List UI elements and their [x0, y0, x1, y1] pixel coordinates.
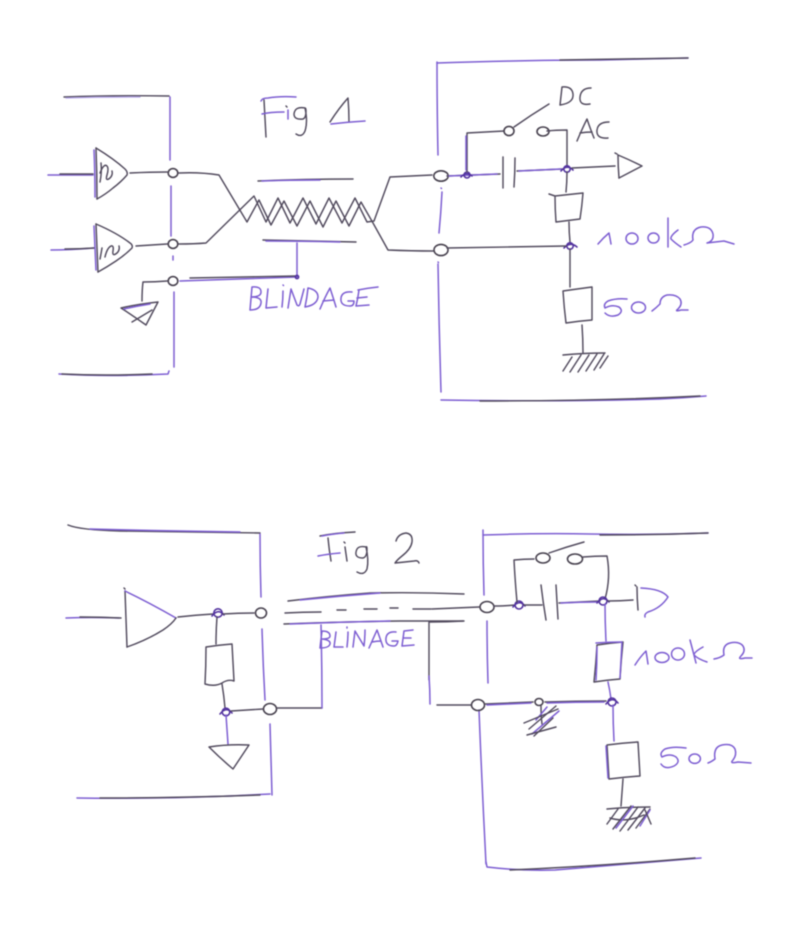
wire node D to capacitor — [447, 174, 500, 176]
resistor R1 (100k) — [549, 193, 583, 222]
right box (fig2 receiver) outline — [479, 530, 708, 870]
wire node I to junction J9 — [485, 702, 533, 704]
wire node C to ground — [142, 281, 167, 301]
100k ohm label (fig2) — [635, 640, 752, 665]
cable bottom shield end tick — [430, 621, 464, 622]
junction J1 — [464, 172, 470, 178]
switch S1 wire AC to junction J2 — [547, 130, 567, 167]
BLINAGE label — [320, 627, 414, 648]
resistor R3 (termination) — [205, 644, 234, 685]
wire J4 to node F — [223, 613, 254, 614]
node C (shield connection) — [168, 277, 178, 286]
resistor R2 (50 ohm) — [563, 287, 592, 323]
node D (signal input) — [434, 171, 448, 181]
left box (fig2 driver) outline — [68, 525, 272, 798]
ground (fig2 left, triangle) — [209, 745, 249, 769]
wire R1 to junction J3 — [569, 222, 570, 242]
wire shield to node C — [180, 243, 297, 281]
junction J8 — [608, 698, 616, 706]
wire R5 down to ground — [621, 779, 623, 806]
shielded cable bottom line — [284, 621, 463, 624]
wire node G to shield drop corner — [277, 707, 322, 709]
wire J5 down to ground triangle — [226, 715, 228, 744]
wire J3 down to resistor R2 — [569, 249, 571, 287]
switch S1 AC contact — [537, 127, 549, 136]
switch S1 DC contact — [504, 126, 514, 135]
twisted pair wire B (from node B, crossing up) — [179, 175, 432, 244]
wire U3 output to node F — [178, 614, 213, 617]
wire node H to junction J6 — [494, 605, 515, 606]
switch S2 right contact — [568, 554, 583, 564]
ground row (fig2): shield drop right — [428, 622, 430, 680]
ground (left box) — [121, 302, 158, 325]
shield drop (fig2 left) — [321, 625, 322, 708]
buffer U2 — [615, 153, 642, 178]
buffer U1b — [94, 224, 132, 272]
50 ohm label (fig1) — [604, 295, 688, 316]
wire J4 down to resistor R3 — [216, 617, 217, 644]
wire J9 to junction J8 — [545, 701, 606, 702]
AC label — [577, 119, 609, 141]
wire node E to J3 — [447, 246, 566, 248]
wire J2 to buffer U2 — [572, 166, 615, 168]
junction J4 — [214, 609, 222, 617]
buffer U4 (fig2) — [635, 585, 668, 617]
ground (fig2 bottom, scribbled hatch) — [607, 806, 651, 831]
left box (driver side) outline — [59, 96, 174, 376]
right box (receiver side) outline — [437, 58, 706, 401]
wire input B — [51, 248, 94, 250]
50 ohm label (fig2) — [661, 745, 751, 768]
resistor R5 (50 ohm fig2) — [606, 742, 640, 779]
wire U1a output to node A — [130, 172, 167, 173]
resistor R4 (100k fig2) — [594, 642, 623, 682]
switch S1 lever — [514, 104, 549, 127]
wire R4 down to junction J8 — [608, 682, 611, 699]
wire capacitor C2 to junction J7 — [559, 601, 600, 603]
wire J5 to node G — [231, 709, 263, 711]
wire ground row left segment — [437, 704, 471, 706]
node E (second input) — [434, 244, 448, 255]
shield outline top — [258, 179, 353, 181]
buffer U3 (fig2 driver) — [124, 588, 176, 647]
ground (right box, hatched) — [563, 353, 608, 372]
twisted pair wire A (from node A, crossing down) — [179, 173, 433, 251]
100k ohm label (fig1) — [598, 218, 734, 247]
shielded cable middle conductor (dashed) with node H — [285, 607, 479, 613]
node H (cable output) — [480, 602, 494, 613]
node G (ground row left) — [264, 704, 277, 715]
ground (fig2 middle, hatched) — [524, 706, 559, 736]
wire J8 down to resistor R5 — [613, 705, 614, 741]
junction J6 — [515, 601, 523, 609]
wire R2 to ground — [582, 325, 583, 353]
switch S2 lever — [549, 542, 584, 553]
DC label — [560, 87, 591, 105]
shield outline bottom — [263, 240, 356, 242]
node F (cable input) — [256, 608, 267, 618]
junction J3 — [567, 243, 573, 249]
Fig 2 title label — [318, 532, 419, 573]
junction J5 — [222, 708, 230, 716]
wire R3 down to junction J5 — [222, 684, 225, 708]
junction J9 (shield ground tap) — [535, 699, 543, 706]
wire input (fig2) — [66, 617, 119, 620]
BLINDAGE label — [250, 285, 378, 310]
junction J2 — [564, 166, 570, 172]
wire J7 to buffer U4 — [608, 600, 633, 601]
wire J6 to capacitor C2 — [524, 604, 542, 606]
switch S1 wire up from J1 — [467, 131, 504, 172]
wire U1b output to node B — [136, 244, 167, 246]
switch S2 wire up from J6 — [514, 559, 534, 602]
switch S2 wire right contact down to J7 — [583, 556, 609, 599]
Fig 1 title label — [261, 97, 365, 137]
wire capacitor to junction J2 — [517, 169, 563, 171]
node I (ground row) — [472, 700, 485, 711]
wire J7 down to resistor R4 — [605, 604, 606, 641]
node A — [168, 169, 178, 178]
shielded cable top line — [288, 593, 464, 601]
wire input A — [48, 174, 93, 176]
buffer U1a — [94, 148, 127, 199]
junction J7 — [599, 597, 607, 605]
capacitor C1 — [503, 157, 515, 188]
capacitor C2 — [541, 585, 558, 620]
switch S2 left contact — [536, 553, 550, 563]
node B — [168, 240, 178, 249]
wire J2 down to resistor R1 — [566, 172, 567, 192]
